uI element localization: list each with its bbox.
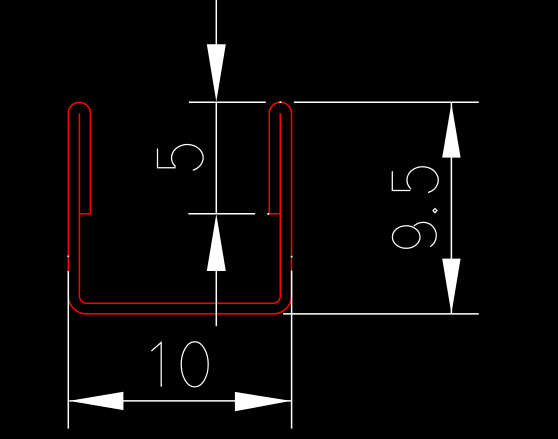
- left hem cut edge: [79, 213, 90, 215]
- 10-dim horizontal line: [69, 400, 291, 402]
- top extension line (left part) y=102.3: [189, 101, 266, 103]
- right flange top cap arc: [269, 102, 291, 113]
- bottom-left outer corner arc: [68, 296, 86, 314]
- right flange outer wall: [291, 113, 293, 295]
- 5-dim vertical line below bottom arrow: [215, 271, 217, 326]
- left flange top cap arc: [68, 102, 90, 113]
- dot at right hem corner: [267, 213, 269, 215]
- top extension line (right part): [294, 101, 479, 103]
- 9.5-dim vertical line: [450, 103, 452, 314]
- dot top of left ext line: [68, 256, 70, 258]
- 10-dim left extension line: [67, 271, 69, 429]
- dot top of right ext line: [291, 256, 293, 258]
- bottom-right outer corner arc: [273, 296, 291, 314]
- glyph 1: [152, 343, 161, 387]
- right hem cavity-side line: [268, 113, 270, 213]
- 9.5-dim top arrow (up): [442, 103, 460, 157]
- arrowheads: [69, 44, 460, 411]
- dimension text "10": [152, 342, 208, 387]
- glyph 9 bowl: [392, 226, 420, 249]
- right flange hem interface line: [279, 113, 281, 296]
- decimal point: [433, 209, 437, 213]
- bottom-right inner corner arc: [273, 296, 281, 303]
- 5-dim bottom arrow (up): [207, 214, 226, 271]
- 9.5-dim bottom arrow (down): [442, 259, 460, 314]
- 10-dim left arrow: [69, 392, 123, 410]
- inner bottom line: [87, 302, 273, 304]
- bottom-left inner corner arc: [79, 296, 87, 303]
- glyph 0: [181, 342, 208, 387]
- dot on right cap top: [279, 101, 281, 103]
- left flange outer wall: [67, 113, 69, 295]
- white artifact dots: [68, 101, 293, 257]
- glyph 5: [392, 172, 410, 191]
- right hem cut edge: [269, 213, 280, 215]
- left hem cavity-side line: [89, 113, 91, 213]
- left flange hem interface line: [78, 113, 80, 296]
- dimension text "5" (rotated, reads bottom-up): [158, 144, 204, 170]
- extension line at hem end y=213.8: [188, 213, 255, 215]
- 5-dim vertical line above top arrow: [215, 0, 217, 45]
- 5-dim top arrow (down): [207, 44, 226, 102]
- outer bottom line: [87, 313, 274, 315]
- 10-dim right arrow: [235, 392, 291, 411]
- bottom extension line of 9.5 dim y=313.9: [283, 313, 479, 315]
- dimension text "9.5" (rotated, reads bottom-up): [392, 167, 438, 249]
- 10-dim right extension line: [291, 271, 293, 429]
- white dimension linework: [68, 0, 478, 429]
- red U-channel profile: [68, 102, 291, 314]
- glyph 9 tail: [414, 222, 436, 246]
- 5-dim vertical line between extension lines: [215, 102, 217, 214]
